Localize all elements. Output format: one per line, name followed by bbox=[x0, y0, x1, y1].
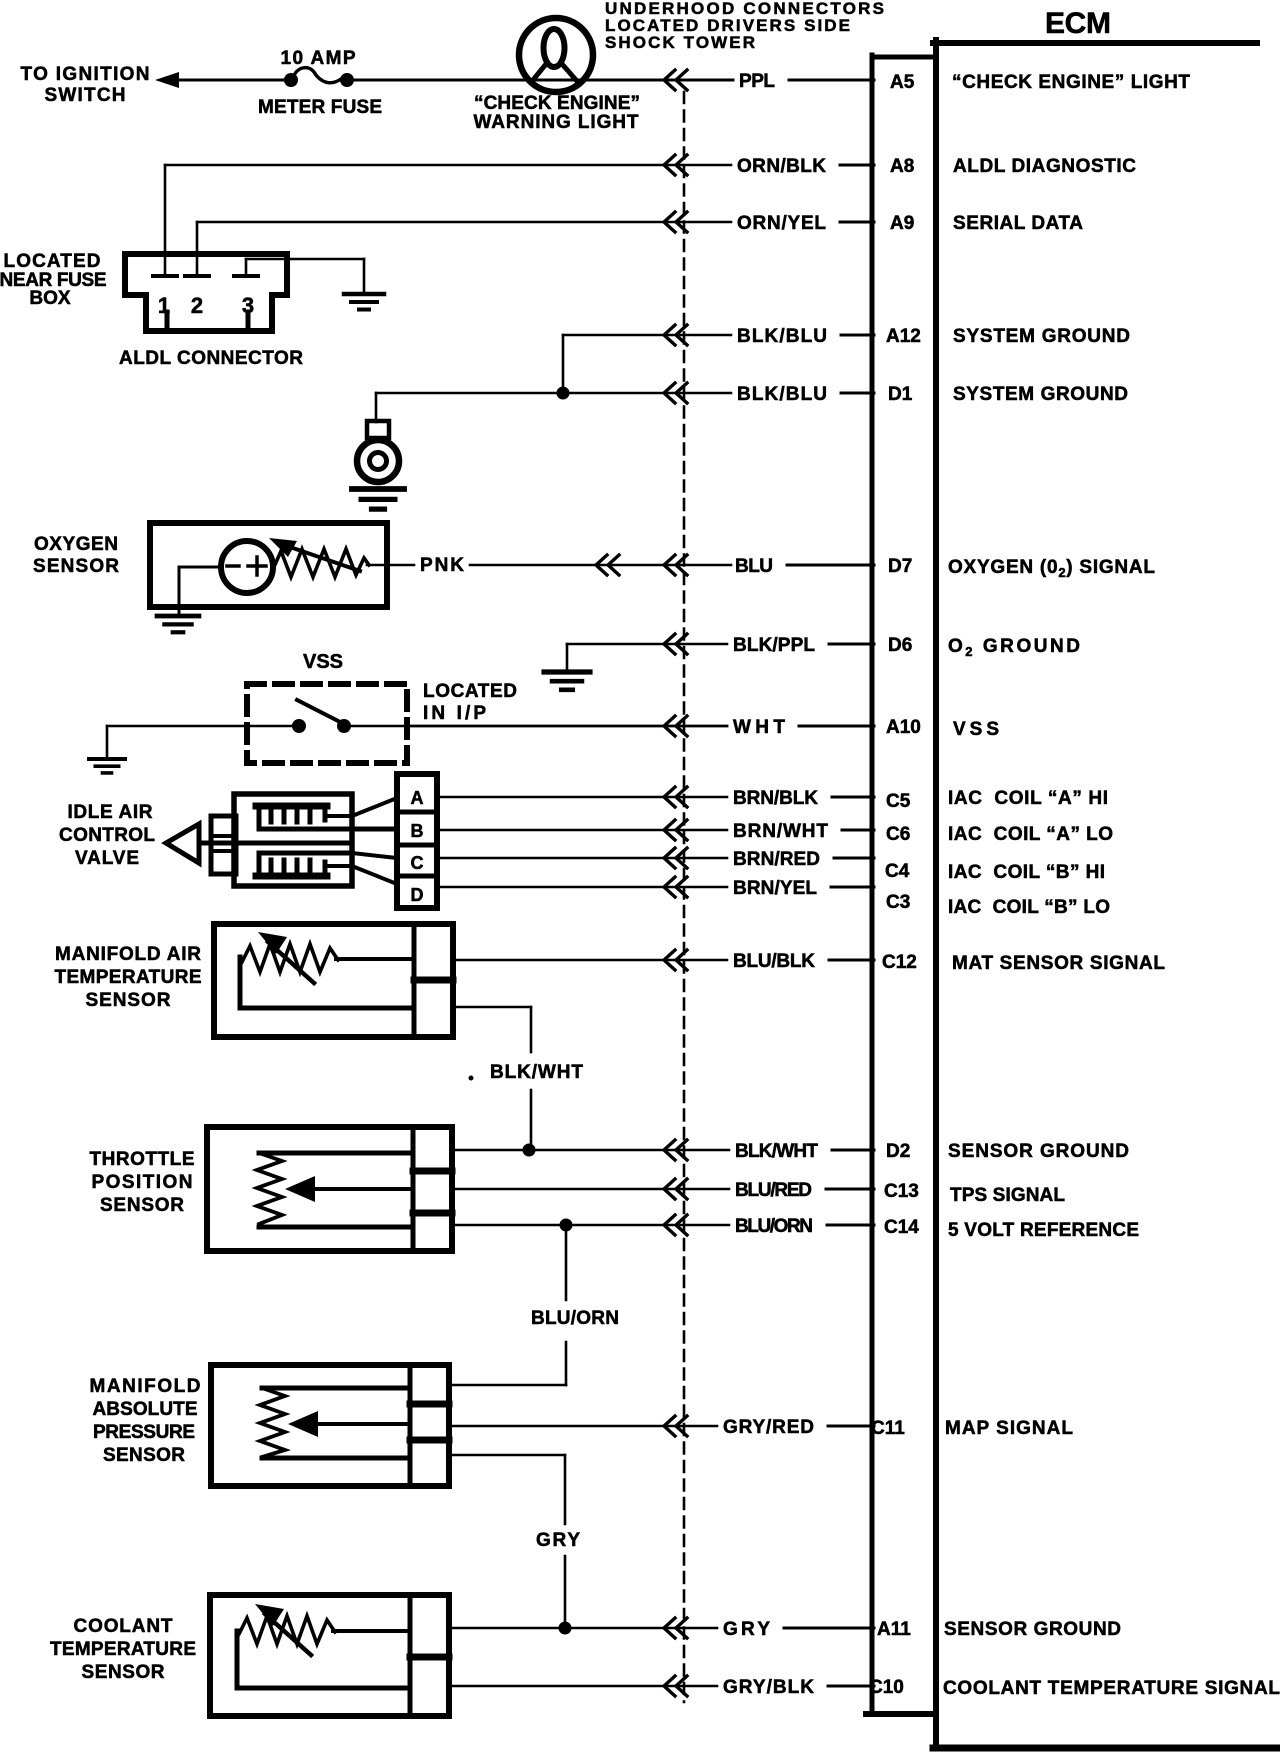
svg-text:BRN/RED: BRN/RED bbox=[733, 849, 820, 870]
svg-text:A5: A5 bbox=[890, 72, 915, 93]
svg-text:A9: A9 bbox=[890, 213, 914, 234]
svg-text:SENSOR: SENSOR bbox=[33, 556, 119, 577]
svg-text:IAC COIL “B” HI: IAC COIL “B” HI bbox=[948, 862, 1105, 883]
svg-text:SENSOR: SENSOR bbox=[86, 990, 171, 1011]
svg-text:MAP SIGNAL: MAP SIGNAL bbox=[945, 1418, 1073, 1439]
svg-text:LOCATED: LOCATED bbox=[4, 251, 101, 272]
svg-text:D2: D2 bbox=[886, 1141, 910, 1162]
svg-text:BLU/RED: BLU/RED bbox=[735, 1180, 812, 1201]
svg-text:GRY: GRY bbox=[536, 1530, 580, 1551]
svg-text:C13: C13 bbox=[884, 1181, 919, 1202]
svg-text:C: C bbox=[411, 853, 424, 873]
svg-text:IAC COIL “B” LO: IAC COIL “B” LO bbox=[948, 897, 1110, 918]
svg-text:SYSTEM GROUND: SYSTEM GROUND bbox=[953, 326, 1130, 347]
svg-text:D7: D7 bbox=[888, 556, 912, 577]
svg-text:A8: A8 bbox=[890, 156, 914, 177]
svg-text:IDLE AIR: IDLE AIR bbox=[68, 802, 153, 823]
svg-text:ABSOLUTE: ABSOLUTE bbox=[93, 1399, 198, 1420]
svg-text:D1: D1 bbox=[888, 384, 913, 405]
svg-text:TEMPERATURE: TEMPERATURE bbox=[50, 1639, 196, 1660]
svg-text:D6: D6 bbox=[888, 635, 912, 656]
svg-text:SWITCH: SWITCH bbox=[45, 85, 126, 106]
svg-text:OXYGEN (02) SIGNAL: OXYGEN (02) SIGNAL bbox=[948, 557, 1155, 580]
svg-text:IAC COIL “A” HI: IAC COIL “A” HI bbox=[948, 788, 1108, 809]
svg-text:10 AMP: 10 AMP bbox=[281, 48, 356, 69]
svg-text:ORN/BLK: ORN/BLK bbox=[737, 156, 826, 177]
svg-text:THROTTLE: THROTTLE bbox=[90, 1149, 195, 1170]
svg-text:VSS: VSS bbox=[953, 719, 999, 740]
svg-text:METER FUSE: METER FUSE bbox=[258, 97, 382, 118]
svg-text:“CHECK ENGINE”: “CHECK ENGINE” bbox=[474, 93, 640, 114]
svg-text:C3: C3 bbox=[886, 892, 910, 913]
svg-text:C4: C4 bbox=[885, 861, 910, 882]
svg-text:SERIAL DATA: SERIAL DATA bbox=[953, 213, 1083, 234]
svg-text:“CHECK ENGINE” LIGHT: “CHECK ENGINE” LIGHT bbox=[952, 72, 1190, 93]
svg-text:BRN/YEL: BRN/YEL bbox=[733, 878, 817, 899]
svg-text:SENSOR GROUND: SENSOR GROUND bbox=[948, 1141, 1129, 1162]
svg-text:SYSTEM GROUND: SYSTEM GROUND bbox=[953, 384, 1128, 405]
svg-text:A11: A11 bbox=[877, 1619, 911, 1640]
svg-text:SENSOR: SENSOR bbox=[103, 1445, 185, 1466]
svg-text:GRY/RED: GRY/RED bbox=[723, 1417, 814, 1438]
svg-text:TO IGNITION: TO IGNITION bbox=[21, 64, 150, 85]
svg-text:WARNING LIGHT: WARNING LIGHT bbox=[474, 112, 639, 133]
svg-text:C14: C14 bbox=[884, 1217, 919, 1238]
svg-text:D: D bbox=[411, 885, 424, 905]
svg-text:2: 2 bbox=[191, 293, 203, 318]
svg-text:BLK/PPL: BLK/PPL bbox=[733, 635, 815, 656]
svg-text:PNK: PNK bbox=[420, 555, 464, 576]
svg-text:COOLANT TEMPERATURE SIGNAL: COOLANT TEMPERATURE SIGNAL bbox=[943, 1678, 1280, 1699]
svg-text:PPL: PPL bbox=[739, 71, 775, 92]
svg-text:WHT: WHT bbox=[733, 717, 785, 738]
svg-text:BRN/BLK: BRN/BLK bbox=[733, 788, 818, 809]
svg-text:SENSOR: SENSOR bbox=[100, 1195, 184, 1216]
svg-text:BRN/WHT: BRN/WHT bbox=[733, 821, 828, 842]
svg-text:MANIFOLD AIR: MANIFOLD AIR bbox=[55, 944, 201, 965]
svg-text:C11: C11 bbox=[871, 1418, 905, 1439]
svg-text:VALVE: VALVE bbox=[75, 848, 139, 869]
svg-text:GRY/BLK: GRY/BLK bbox=[723, 1677, 814, 1698]
svg-text:TEMPERATURE: TEMPERATURE bbox=[55, 967, 202, 988]
svg-text:C10: C10 bbox=[869, 1677, 904, 1698]
svg-text:ORN/YEL: ORN/YEL bbox=[737, 213, 826, 234]
svg-text:A12: A12 bbox=[886, 326, 921, 347]
svg-text:5 VOLT REFERENCE: 5 VOLT REFERENCE bbox=[948, 1220, 1139, 1241]
svg-text:BLU/ORN: BLU/ORN bbox=[531, 1308, 619, 1329]
svg-text:1: 1 bbox=[158, 293, 170, 318]
svg-text:BLU/BLK: BLU/BLK bbox=[733, 951, 815, 972]
svg-text:ALDL CONNECTOR: ALDL CONNECTOR bbox=[119, 348, 303, 369]
svg-text:SENSOR GROUND: SENSOR GROUND bbox=[944, 1619, 1121, 1640]
svg-text:A: A bbox=[411, 788, 424, 808]
svg-text:ALDL DIAGNOSTIC: ALDL DIAGNOSTIC bbox=[953, 156, 1136, 177]
svg-text:SENSOR: SENSOR bbox=[82, 1662, 165, 1683]
svg-text:3: 3 bbox=[242, 293, 254, 318]
svg-text:BLK/WHT: BLK/WHT bbox=[735, 1141, 818, 1162]
svg-text:BLK/WHT: BLK/WHT bbox=[490, 1062, 583, 1083]
svg-text:BLU: BLU bbox=[735, 556, 773, 577]
svg-text:PRESSURE: PRESSURE bbox=[93, 1422, 195, 1443]
svg-text:B: B bbox=[411, 821, 424, 841]
svg-text:ECM: ECM bbox=[1045, 7, 1111, 40]
svg-text:A10: A10 bbox=[886, 717, 921, 738]
svg-text:COOLANT: COOLANT bbox=[74, 1616, 173, 1637]
svg-text:TPS SIGNAL: TPS SIGNAL bbox=[950, 1185, 1065, 1206]
svg-text:BOX: BOX bbox=[29, 288, 71, 309]
svg-text:SHOCK TOWER: SHOCK TOWER bbox=[605, 33, 755, 52]
svg-text:MANIFOLD: MANIFOLD bbox=[90, 1376, 201, 1397]
svg-text:LOCATED: LOCATED bbox=[423, 681, 517, 702]
svg-text:C12: C12 bbox=[882, 952, 917, 973]
svg-text:BLU/ORN: BLU/ORN bbox=[735, 1216, 813, 1237]
svg-text:IAC COIL “A” LO: IAC COIL “A” LO bbox=[948, 824, 1113, 845]
svg-text:BLK/BLU: BLK/BLU bbox=[737, 384, 827, 405]
svg-text:C6: C6 bbox=[886, 824, 910, 845]
svg-text:VSS: VSS bbox=[303, 651, 343, 673]
svg-text:GRY: GRY bbox=[723, 1619, 770, 1640]
svg-text:MAT SENSOR SIGNAL: MAT SENSOR SIGNAL bbox=[952, 953, 1165, 974]
svg-text:OXYGEN: OXYGEN bbox=[34, 534, 118, 555]
svg-text:C5: C5 bbox=[886, 791, 911, 812]
svg-text:CONTROL: CONTROL bbox=[59, 825, 155, 846]
svg-text:BLK/BLU: BLK/BLU bbox=[737, 326, 827, 347]
